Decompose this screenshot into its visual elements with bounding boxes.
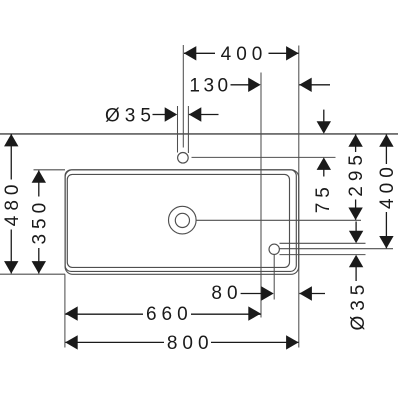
svg-text:400: 400 xyxy=(377,162,398,209)
svg-text:400: 400 xyxy=(221,44,268,65)
svg-text:Ø35: Ø35 xyxy=(348,280,369,331)
svg-text:480: 480 xyxy=(2,180,23,227)
svg-text:Ø35: Ø35 xyxy=(105,105,156,126)
svg-text:660: 660 xyxy=(146,304,193,325)
svg-text:800: 800 xyxy=(167,333,214,354)
svg-text:80: 80 xyxy=(211,283,242,304)
svg-text:350: 350 xyxy=(30,198,51,245)
svg-text:130: 130 xyxy=(189,76,231,97)
svg-text:295: 295 xyxy=(346,150,367,197)
svg-text:75: 75 xyxy=(313,182,334,213)
